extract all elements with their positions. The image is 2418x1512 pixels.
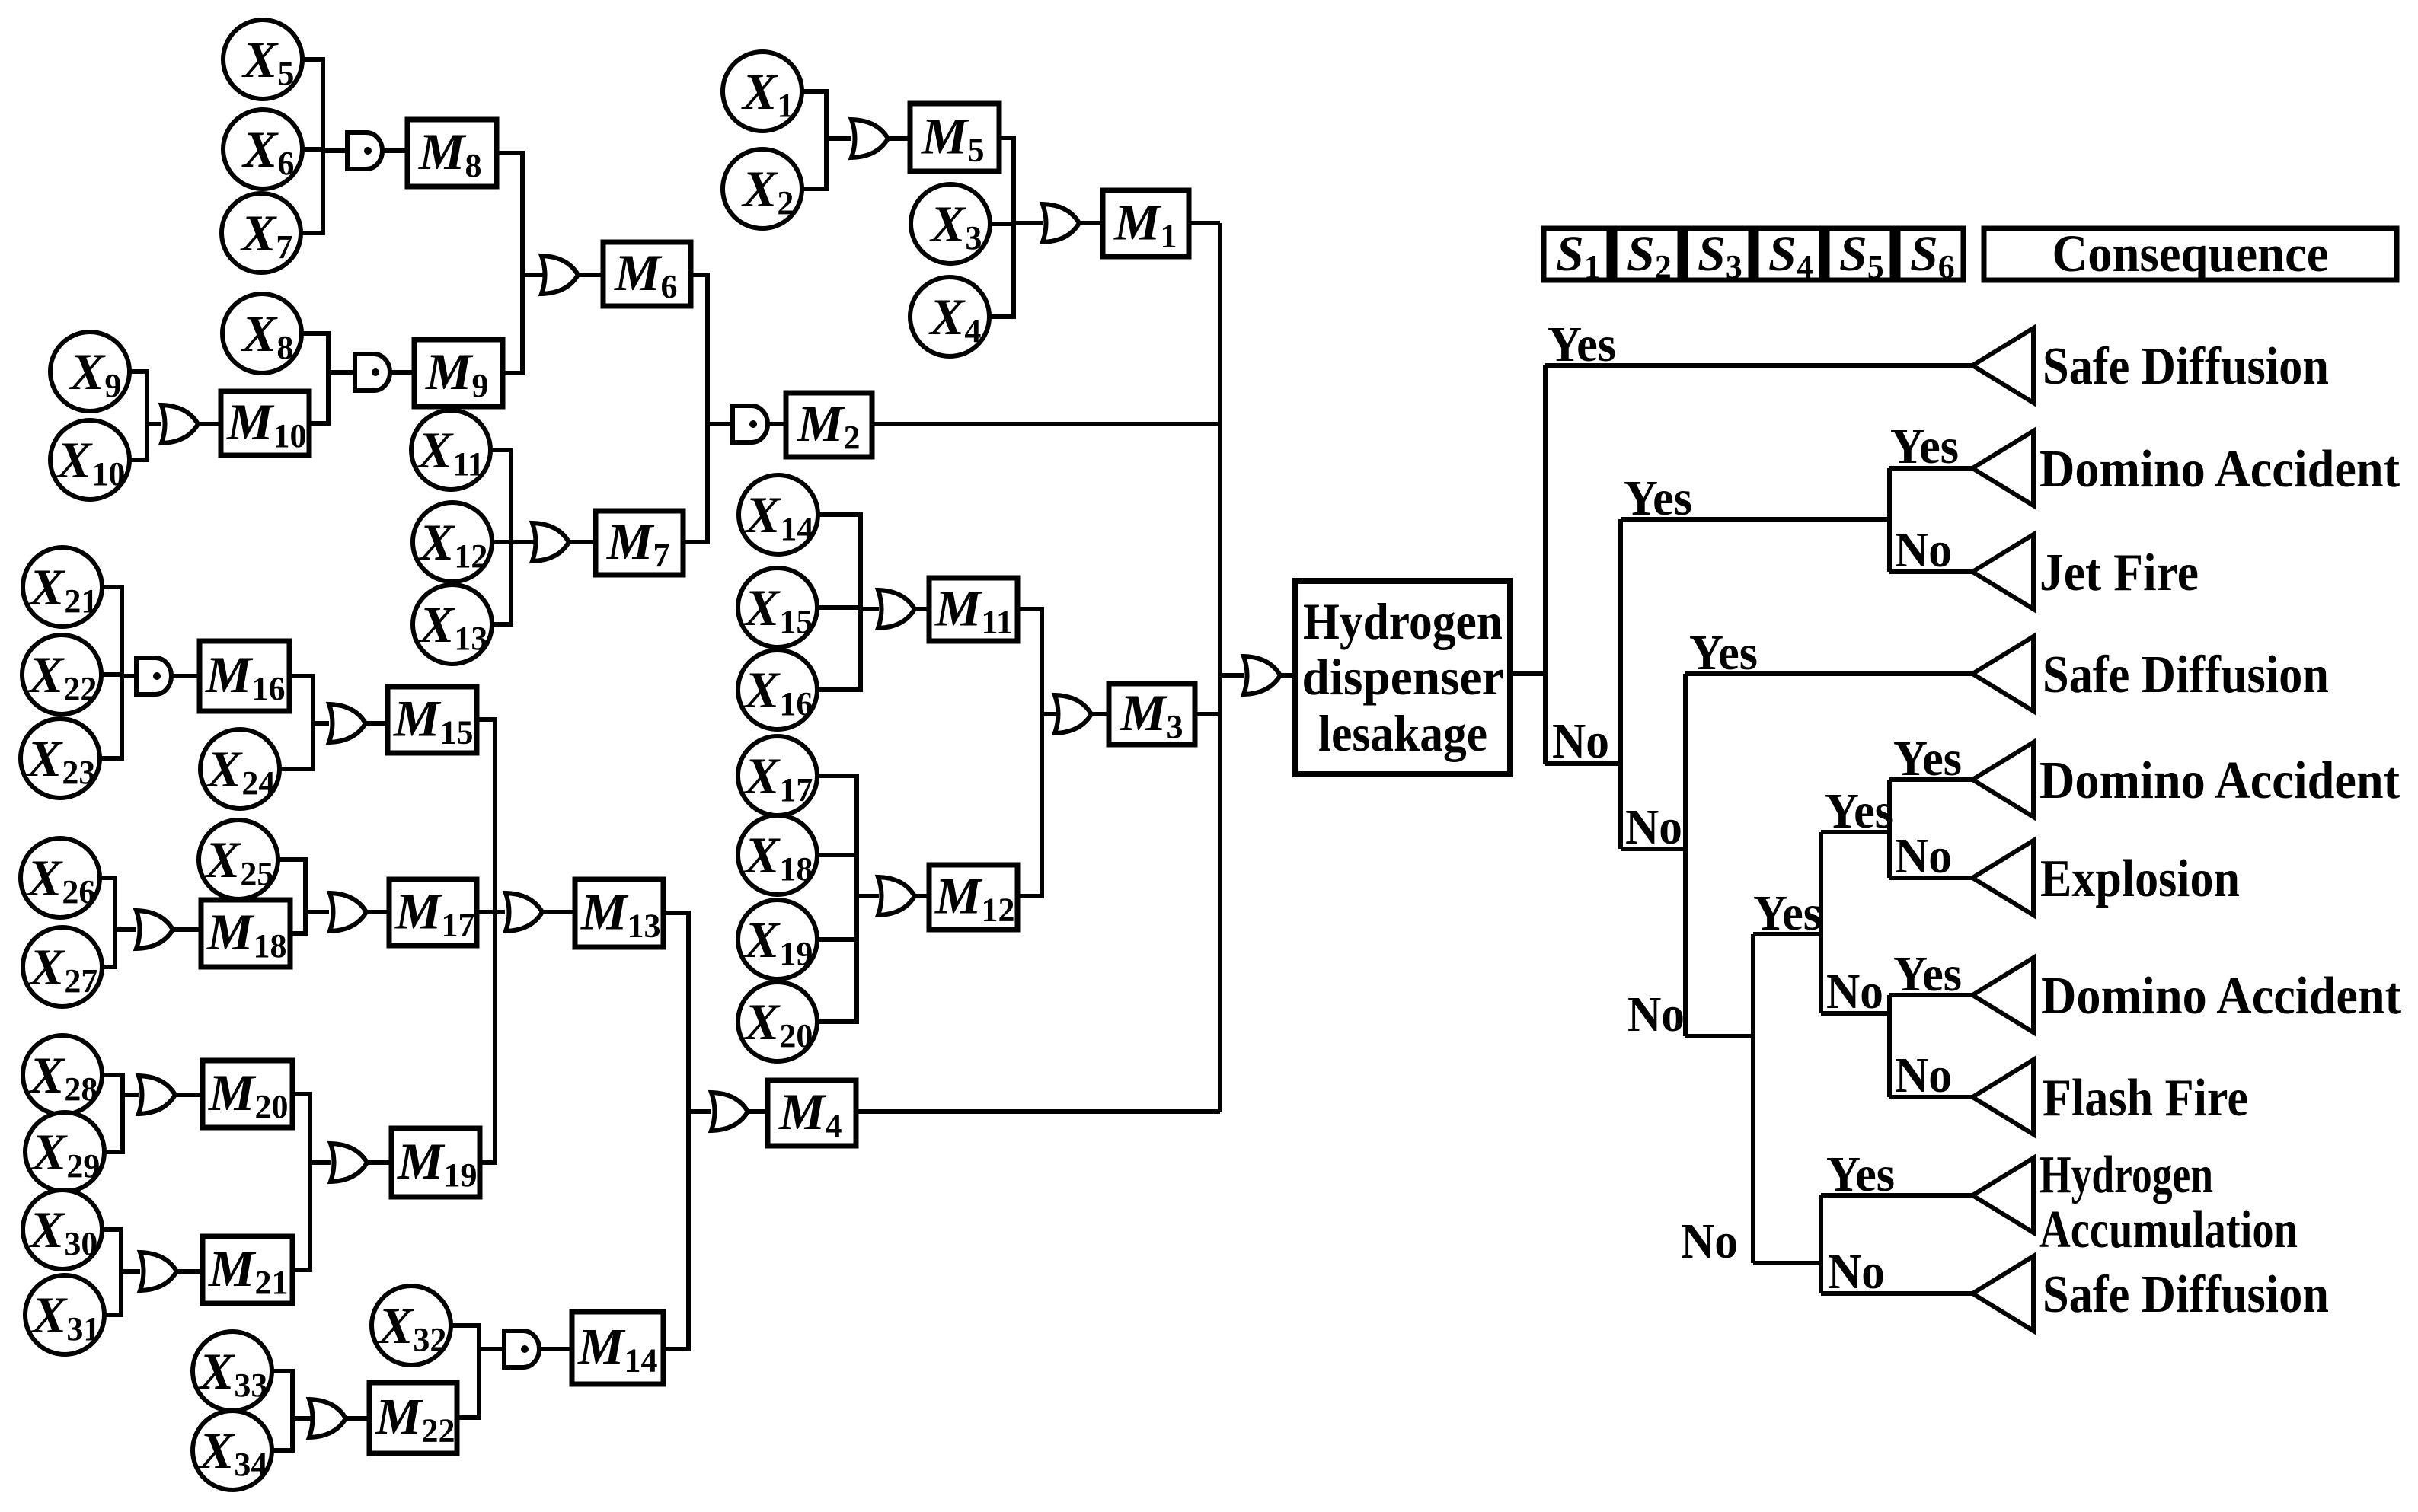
wire X11-X13 collector [490, 450, 511, 624]
OR gate for M21 [140, 1252, 177, 1290]
basic event X23 [21, 719, 100, 798]
wire OR-M17 to M17 [367, 910, 389, 914]
svg-text:lesakage: lesakage [1318, 704, 1487, 762]
basic event X6 [223, 110, 302, 189]
consequence triangle Domino Accident 1 [1972, 431, 2033, 506]
svg-text:dispenser: dispenser [1302, 648, 1504, 706]
OR gate for M10 [161, 405, 198, 443]
AND gate for M2 [733, 406, 768, 442]
wire collector to OR-M22 [292, 1416, 311, 1421]
OR gate for M5 [851, 120, 888, 158]
svg-text:No: No [1895, 828, 1952, 884]
basic event X29 [25, 1112, 104, 1191]
intermediate event M3 [1109, 684, 1195, 745]
wire X25 M18 collector [278, 860, 305, 933]
wire S3 Yes to Safe Diffusion [1685, 671, 1972, 676]
svg-text:Yes: Yes [1689, 625, 1758, 681]
intermediate event M16 [200, 641, 289, 711]
consequence triangle Hydrogen Accumulation [1972, 1158, 2033, 1233]
basic event X18 [738, 815, 817, 895]
wire X14-X16 collector [817, 515, 861, 690]
AND gate for M16 [136, 658, 171, 694]
intermediate event M22 [369, 1383, 457, 1453]
svg-text:Domino Accident: Domino Accident [2039, 440, 2400, 499]
intermediate event M6 [603, 242, 691, 306]
basic event X28 [23, 1035, 102, 1115]
wire M15 M19 outputs collector [477, 719, 495, 1163]
svg-text:Yes: Yes [1825, 783, 1893, 839]
basic event X16 [738, 650, 817, 729]
node trunk S5a vertical [1887, 468, 1892, 572]
OR gate for M17 [330, 893, 366, 931]
wire collector to OR-M1 [1014, 221, 1043, 225]
wire M4 to trunk [856, 1109, 1220, 1114]
wire S6b No to Flash Fire [1889, 1095, 1972, 1099]
OR gate for M7 [532, 523, 569, 561]
wire OR-M10 to M10 [198, 422, 221, 426]
wire X21-X23 collector [100, 587, 122, 758]
wire collector to OR-M3 [1042, 712, 1056, 716]
wire collector to AND-M8 [323, 148, 349, 153]
svg-text:Domino Accident: Domino Accident [2041, 967, 2401, 1026]
wire OR-M3 to M3 [1090, 712, 1109, 716]
intermediate event M15 [388, 687, 477, 753]
consequence triangle Jet Fire [1972, 534, 2033, 609]
wire S6a No to Explosion [1889, 876, 1972, 880]
safety barrier box S4 [1756, 226, 1822, 285]
wire collector to OR-M18 [115, 927, 136, 932]
wire X1-X2 collector [802, 91, 826, 189]
wire OR-M4 to M4 [748, 1109, 768, 1114]
svg-text:Hydrogen: Hydrogen [1303, 592, 1503, 650]
wire S6c Yes to Hydrogen Accumulation [1821, 1193, 1972, 1198]
basic event X15 [738, 568, 817, 647]
intermediate event M7 [596, 511, 683, 575]
wire collector to AND-M16 [122, 674, 138, 678]
intermediate event M4 [768, 1080, 856, 1146]
node trunk S1 vertical [1543, 365, 1548, 764]
svg-text:Yes: Yes [1826, 1147, 1895, 1202]
node trunk S5b vertical [1819, 832, 1823, 1013]
svg-text:No: No [1826, 964, 1883, 1019]
svg-text:Yes: Yes [1624, 471, 1692, 526]
wire X15 to collector [817, 605, 861, 610]
basic event X11 [411, 410, 490, 490]
wire collector to OR-M17 [305, 910, 329, 914]
wire X9-X10 collector [129, 372, 147, 460]
wire M17 to OR-M13 [477, 910, 505, 914]
intermediate event M1 [1103, 190, 1189, 257]
wire X6 to collector [302, 147, 323, 152]
wire AND-M2 to M2 [765, 422, 786, 426]
wire collector to OR-M20 [123, 1093, 139, 1097]
basic event X4 [910, 277, 989, 356]
svg-text:No: No [1828, 1244, 1885, 1300]
wire OR-M12 to M12 [912, 894, 929, 898]
OR gate for M20 [139, 1076, 175, 1114]
wire M16 X24 collector [279, 676, 313, 769]
node trunk S6b vertical [1887, 995, 1892, 1097]
svg-text:Safe Diffusion: Safe Diffusion [2043, 337, 2329, 396]
wire AND-M9 to M9 [388, 370, 414, 375]
consequence triangle Safe Diffusion 3 [1972, 1256, 2033, 1331]
safety barrier box S1 [1544, 226, 1609, 285]
wire S2 No to trunk S3 [1621, 847, 1685, 851]
wire top event to trunk S1 [1510, 671, 1545, 676]
wire collector to AND-M14 [479, 1347, 505, 1351]
OR gate for M4 [711, 1093, 748, 1131]
OR gate for M15 [329, 704, 366, 742]
intermediate event M13 [575, 879, 663, 947]
wire collector to OR-M19 [310, 1160, 331, 1165]
node trunk S3 vertical [1683, 674, 1688, 1036]
wire OR-M21 to M21 [177, 1269, 203, 1274]
OR gate for M13 [506, 893, 542, 931]
wire M2 to trunk [872, 422, 1220, 426]
wire S1 No to trunk S2 [1545, 761, 1621, 766]
top event box Hydrogen dispenser lesakage [1295, 581, 1510, 774]
wire X32 M22 collector [452, 1325, 479, 1418]
wire X3 to collector [990, 222, 1014, 226]
consequence triangle Explosion [1972, 841, 2033, 915]
wire X12 to collector [492, 540, 511, 544]
basic event X32 [372, 1286, 451, 1365]
intermediate event M20 [203, 1061, 292, 1128]
svg-text:No: No [1625, 799, 1682, 855]
wire collector to AND-M2 [708, 422, 733, 426]
basic event X10 [50, 420, 129, 499]
basic event X22 [22, 635, 101, 714]
wire OR-M13 to M13 [542, 910, 575, 914]
wire OR-Hydrogen to top event box [1280, 673, 1295, 678]
wire X8 to collector down to M10 output [302, 333, 328, 423]
OR gate for top event [1244, 656, 1280, 694]
OR gate for M12 [878, 877, 915, 915]
svg-text:Flash Fire: Flash Fire [2043, 1069, 2248, 1128]
intermediate event M2 [786, 393, 872, 457]
OR gate for M6 [541, 256, 578, 294]
wire M13 M14 outputs collector [663, 913, 688, 1349]
intermediate event M5 [910, 104, 999, 171]
Consequence header box [1984, 225, 2397, 282]
svg-text:Domino Accident: Domino Accident [2039, 751, 2400, 810]
basic event X34 [193, 1411, 272, 1490]
AND gate for M9 [355, 354, 390, 391]
svg-text:Yes: Yes [1893, 731, 1962, 786]
intermediate event M12 [929, 865, 1017, 930]
wire X5-X7 collector to AND gate M8 input [298, 59, 323, 233]
consequence triangle Flash Fire [1972, 1060, 2033, 1134]
intermediate event M11 [929, 578, 1017, 641]
AND gate for M14 [504, 1331, 539, 1367]
wire collector to OR-M6 [522, 273, 546, 277]
basic event X21 [23, 547, 102, 627]
intermediate event M10 [221, 391, 309, 455]
intermediate event M9 [414, 340, 503, 407]
basic event X20 [738, 982, 817, 1061]
wire AND-M8 to M8 [381, 148, 407, 153]
svg-text:Accumulation: Accumulation [2039, 1201, 2298, 1259]
basic event X12 [413, 502, 492, 582]
safety barrier box S5 [1827, 226, 1893, 285]
wire S6c No to Safe Diffusion [1821, 1291, 1972, 1296]
safety barrier box S3 [1685, 226, 1751, 285]
wire AND-M14 to M14 [540, 1347, 572, 1351]
svg-text:Yes: Yes [1753, 885, 1822, 941]
basic event X19 [738, 900, 817, 979]
wire S5a No to Jet Fire [1889, 569, 1972, 574]
wire OR-M11 to M11 [912, 607, 929, 611]
svg-text:Consequence: Consequence [2052, 225, 2329, 282]
wire main trunk vertical [1218, 223, 1222, 1112]
wire S5b Yes branch [1821, 830, 1889, 834]
svg-text:No: No [1895, 522, 1952, 578]
wire collector to OR-M7 [511, 540, 537, 544]
basic event X8 [222, 294, 302, 373]
wire S4 No branch [1753, 1261, 1821, 1265]
consequence triangle Domino Accident 3 [1972, 958, 2033, 1032]
wire collector to OR-M4 [688, 1109, 711, 1114]
basic event X9 [50, 332, 129, 411]
wire S5a Yes to Domino Accident [1889, 466, 1972, 471]
OR gate for M19 [331, 1144, 367, 1182]
wire S6a Yes to Domino Accident [1889, 777, 1972, 782]
wire M6 M7 outputs collector [683, 275, 708, 542]
wire X18 to collector [817, 853, 857, 857]
wire M5 X3 X4 collector [989, 138, 1014, 317]
svg-text:Jet Fire: Jet Fire [2039, 544, 2199, 602]
basic event X30 [23, 1190, 102, 1269]
wire OR-M15 to M15 [366, 721, 388, 726]
basic event X13 [413, 585, 492, 664]
wire trunk to OR-Hydrogen [1220, 673, 1244, 678]
wire OR-M19 to M19 [367, 1160, 391, 1165]
svg-text:No: No [1681, 1214, 1738, 1269]
wire collector to OR-M12 [857, 894, 879, 898]
intermediate event M8 [407, 120, 497, 187]
wire M11 M12 outputs collector [1017, 609, 1042, 896]
wire OR-M5 to M5 [888, 136, 910, 141]
intermediate event M14 [572, 1312, 663, 1384]
node trunk S6a vertical [1887, 780, 1892, 878]
wire AND-M16 to M16 [171, 674, 200, 678]
basic event X24 [200, 729, 279, 809]
basic event X26 [21, 838, 100, 917]
AND gate for M8 [347, 132, 382, 169]
svg-text:Safe Diffusion: Safe Diffusion [2043, 1265, 2329, 1324]
basic event X3 [911, 184, 990, 263]
wire S2 Yes branch [1621, 517, 1889, 522]
node trunk S6c vertical [1819, 1195, 1823, 1293]
basic event X14 [739, 475, 818, 554]
wire OR-M18 to M18 [173, 927, 201, 932]
OR gate for M22 [309, 1399, 346, 1437]
svg-text:Yes: Yes [1548, 317, 1616, 372]
basic event X2 [723, 149, 802, 228]
svg-text:Yes: Yes [1890, 419, 1959, 474]
wire X28-X29 collector [102, 1075, 123, 1152]
wire collector to AND-M9 [328, 370, 356, 375]
wire X17-X20 collector [817, 776, 857, 1022]
consequence triangle Domino Accident 2 [1972, 742, 2033, 817]
basic event X1 [723, 52, 802, 131]
wire collector to OR-M21 [121, 1269, 140, 1274]
wire collector to OR-M10 [147, 422, 161, 426]
OR gate for M18 [136, 911, 173, 949]
OR gate for M3 [1055, 695, 1091, 733]
wire X33-X34 collector [272, 1371, 292, 1450]
svg-text:Explosion: Explosion [2040, 850, 2240, 908]
safety barrier box S2 [1615, 226, 1680, 285]
wire collector to OR-M5 [826, 136, 851, 141]
wire OR-M6 to M6 [577, 273, 603, 277]
basic event X5 [223, 20, 302, 99]
wire OR-M1 to M1 [1079, 221, 1103, 225]
basic event X27 [23, 927, 102, 1006]
intermediate event M19 [391, 1128, 480, 1197]
basic event X7 [222, 193, 301, 273]
wire X30-X31 collector [102, 1230, 121, 1315]
wire X26-X27 collector [100, 878, 115, 967]
basic event X17 [738, 736, 817, 815]
wire M8 M9 outputs collector [497, 153, 522, 373]
wire OR-M7 to M7 [567, 540, 596, 544]
wire S6b Yes to Domino Accident [1889, 993, 1972, 997]
wire collector to OR-M15 [313, 721, 329, 726]
svg-text:No: No [1552, 713, 1609, 769]
basic event X31 [25, 1275, 104, 1354]
consequence triangle Safe Diffusion 2 [1972, 636, 2033, 711]
svg-text:No: No [1895, 1048, 1952, 1103]
wire branch S1 Yes to Safe Diffusion [1545, 363, 1972, 368]
wire S3 No to trunk S4 [1685, 1034, 1753, 1038]
wire S5b No branch [1821, 1011, 1889, 1016]
node trunk S2 vertical [1618, 519, 1623, 849]
wire X19 to collector [817, 937, 857, 942]
svg-text:Safe Diffusion: Safe Diffusion [2043, 646, 2329, 704]
wire S4 Yes branch [1753, 932, 1821, 936]
wire X22 to collector [101, 672, 122, 677]
wire OR-M22 to M22 [344, 1416, 369, 1421]
OR gate for M1 [1043, 204, 1079, 242]
intermediate event M17 [389, 879, 477, 946]
svg-text:No: No [1627, 987, 1685, 1042]
node trunk S4 vertical [1751, 934, 1755, 1263]
wire M3 to trunk [1195, 712, 1220, 716]
intermediate event M21 [203, 1236, 292, 1303]
wire M1 to trunk [1189, 221, 1220, 225]
OR gate for M11 [878, 590, 915, 628]
wire M20 M21 outputs collector [292, 1094, 310, 1270]
safety barrier box S6 [1898, 226, 1963, 285]
wire collector to OR-M11 [861, 607, 879, 611]
basic event X33 [193, 1332, 272, 1411]
svg-text:Hydrogen: Hydrogen [2039, 1146, 2213, 1204]
svg-text:Yes: Yes [1893, 946, 1962, 1002]
intermediate event M18 [201, 900, 290, 967]
consequence triangle Safe Diffusion 1 [1972, 328, 2033, 403]
wire OR-M20 to M20 [175, 1093, 203, 1097]
basic event X25 [199, 820, 278, 899]
